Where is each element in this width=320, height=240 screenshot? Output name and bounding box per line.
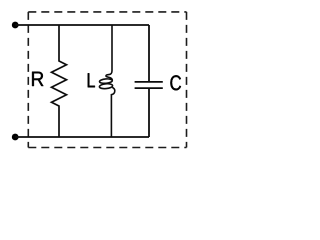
terminal dot (top)	[12, 22, 19, 29]
capacitor C : top stub	[148, 25, 150, 81]
dashed enclosure box	[28, 12, 186, 148]
label C	[170, 75, 181, 90]
wire (top rail)	[15, 24, 149, 26]
label L	[88, 73, 95, 87]
capacitor C : bottom plate	[135, 87, 163, 89]
capacitor C : bottom stub	[148, 89, 150, 137]
label R	[32, 72, 43, 86]
inductor L : exit hook and bottom lead	[111, 87, 114, 137]
inductor L : loop 1	[99, 78, 112, 83]
resistor R	[52, 25, 67, 137]
wire (bottom rail)	[15, 136, 149, 138]
inductor L : loop 2	[99, 83, 113, 89]
terminal dot (bottom)	[12, 134, 19, 141]
capacitor C : top plate	[135, 81, 163, 83]
inductor L : top lead and entry hook	[106, 25, 112, 80]
